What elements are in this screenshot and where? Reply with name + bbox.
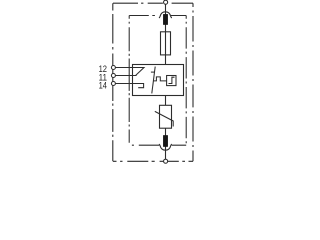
monitoring element box	[167, 76, 176, 86]
varistor body	[160, 105, 172, 128]
inner protection-module frame, dash-dot, top edge	[129, 15, 186, 17]
svg-text:14: 14	[99, 81, 107, 92]
inner protection-module frame, dash-dot, bottom edge	[132, 144, 186, 146]
wire: varistor to bottom terminal	[165, 128, 167, 159]
inner protection-module frame, dash-dot, right edge	[185, 16, 187, 144]
terminal circle (bottom PE)	[164, 159, 168, 163]
lever tick	[151, 71, 155, 73]
mechanical linkage lever	[152, 67, 155, 94]
white mask under lower disconnector arc	[160, 143, 171, 149]
thermal disconnector (lower) arc	[159, 144, 172, 150]
white mask under upper disconnector arc	[155, 13, 171, 18]
wire terminal 12 line with contact blade	[115, 68, 144, 76]
outer enclosure frame, dash-dot, right edge	[192, 3, 194, 161]
wire: box to varistor	[165, 96, 167, 106]
wire terminal 14 line with contact hook	[115, 84, 143, 88]
terminal 14 circle	[111, 82, 115, 86]
terminal circle (top phase)	[164, 0, 168, 4]
varistor diagonal with tail	[155, 111, 173, 126]
thermal disconnector (lower) contact block	[163, 135, 167, 146]
inner protection-module frame, dash-dot, left edge	[128, 16, 130, 143]
thermal disconnector (upper) contact block	[163, 14, 167, 24]
fuse symbol	[161, 32, 171, 55]
terminal 11 circle	[111, 74, 115, 78]
step symbol inside monitoring element	[169, 77, 175, 83]
outer enclosure frame, dash-dot, left edge	[112, 3, 114, 161]
wire: top terminal down to monitoring box	[165, 2, 167, 64]
pulse waveform line to monitoring element	[153, 77, 167, 81]
monitoring / signalling unit box	[133, 65, 184, 96]
thermal disconnector (upper) arc	[159, 12, 172, 18]
wire terminal 11 line (contact common)	[115, 75, 136, 77]
wire through fuse	[165, 32, 167, 55]
terminal 12 circle	[111, 66, 115, 70]
outer enclosure frame, dash-dot, bottom edge	[113, 160, 193, 162]
outer enclosure frame, dash-dot, top edge	[113, 2, 193, 4]
